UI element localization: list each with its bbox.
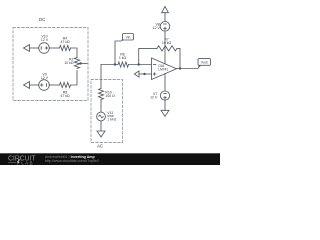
wire — [71, 48, 78, 58]
wire — [49, 47, 59, 49]
voltage source V8 — [160, 22, 170, 32]
svg-text:12 V: 12 V — [150, 96, 158, 100]
voltage source V9 — [39, 80, 50, 91]
svg-text:AC: AC — [97, 143, 103, 148]
svg-text:http://www.circuitlab.com/c7xp: http://www.circuitlab.com/c7xp5e2 — [45, 159, 99, 163]
resistor R6 — [118, 62, 129, 67]
wire — [100, 121, 102, 131]
svg-text:12 V: 12 V — [153, 26, 161, 30]
op-amp OA1 — [152, 58, 177, 80]
wiper of R2 — [81, 62, 87, 64]
svg-text:Vin: Vin — [126, 35, 131, 39]
svg-text:100 Ω: 100 Ω — [105, 94, 115, 98]
ground (below V11) — [97, 131, 105, 137]
resistor R8 — [60, 82, 71, 87]
feedback wire to output — [177, 48, 180, 68]
svg-text:1 kΩ: 1 kΩ — [119, 56, 127, 60]
wire — [100, 100, 102, 113]
wire — [30, 84, 39, 86]
positive supply rail flag — [162, 6, 169, 12]
potentiometer R2 — [74, 58, 79, 69]
wire — [71, 71, 78, 86]
wire — [129, 64, 152, 66]
wire (input row to op-amp) — [101, 64, 118, 66]
voltage source V7 — [160, 91, 169, 100]
resistor R10 — [99, 89, 104, 100]
wire — [30, 47, 39, 49]
svg-text:LAB: LAB — [21, 160, 34, 165]
svg-text:DC: DC — [39, 17, 45, 22]
flag Vout — [198, 64, 201, 68]
svg-text:LM741: LM741 — [158, 68, 168, 72]
svg-text:10 kΩ: 10 kΩ — [162, 41, 172, 45]
feedback wire — [139, 48, 157, 64]
wire (output) — [177, 68, 199, 70]
wire (V+ supply pin) — [164, 31, 166, 64]
svg-text:12 V: 12 V — [41, 38, 49, 42]
wire — [164, 13, 166, 22]
wire (input node to AC box) — [100, 65, 102, 89]
wire — [49, 84, 59, 86]
svg-text:47 kΩ: 47 kΩ — [60, 94, 70, 98]
svg-text:10 kΩ: 10 kΩ — [64, 61, 74, 65]
resistor R7 (feedback) — [157, 46, 177, 51]
svg-text:47 kΩ: 47 kΩ — [60, 40, 70, 44]
node (Vin tap) — [114, 63, 116, 65]
wire — [164, 100, 166, 110]
ground (non-inverting input) — [134, 71, 139, 77]
node (output junction) — [179, 67, 181, 69]
flag Vin — [121, 38, 124, 41]
ground (left, row 2) — [24, 82, 30, 89]
voltage source V10 — [39, 43, 50, 54]
wire — [139, 73, 152, 75]
wire (Vin flag drop) — [115, 41, 121, 65]
svg-text:12 V: 12 V — [41, 76, 49, 80]
wire (V- supply pin) — [164, 74, 166, 91]
node (inverting input) — [138, 63, 140, 65]
svg-text:1 kHz: 1 kHz — [107, 118, 116, 122]
DC annotation box — [13, 28, 88, 101]
ground (below V7) — [161, 110, 169, 116]
AC annotation box — [91, 80, 123, 143]
watermark bar — [0, 153, 220, 165]
ground (left, row 1) — [24, 45, 30, 52]
sine source V11 — [97, 112, 106, 121]
resistor R4 — [60, 45, 71, 50]
svg-text:Vout: Vout — [201, 61, 208, 65]
node (non-inverting input) — [143, 73, 145, 75]
